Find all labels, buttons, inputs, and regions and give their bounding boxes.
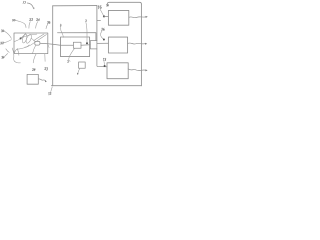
- label 12 below main box: [49, 92, 52, 95]
- sketch steering dot: [20, 37, 22, 39]
- vehicle sketch box: [14, 33, 48, 54]
- label 20: [12, 19, 15, 21]
- lead 16 with dot: [100, 9, 103, 15]
- stub wire on main box right edge: [97, 19, 101, 21]
- squiggle arrow box1: [129, 16, 146, 19]
- sketch body curves lower-left: [6, 48, 20, 63]
- squiggle arrow box3: [128, 69, 145, 71]
- lead 34: [5, 54, 8, 57]
- lower small box in main box: [79, 62, 86, 68]
- label below sketch right: [45, 68, 48, 71]
- lead 30: [4, 31, 11, 38]
- lead 26: [46, 24, 48, 29]
- attached small box on right edge: [90, 41, 97, 49]
- squiggle arrow box2: [128, 42, 145, 45]
- label 42: [59, 24, 62, 26]
- lead 32: [4, 40, 12, 43]
- small box inside inner unit: [73, 42, 81, 48]
- upper wire inside main box: [58, 33, 96, 41]
- label below sketch left: [32, 68, 35, 71]
- bottom-left small box: [27, 74, 38, 84]
- lead 24: [36, 22, 38, 29]
- box3: [107, 63, 128, 79]
- lead from lower box: [78, 68, 80, 73]
- main box right edge upper: [96, 6, 98, 41]
- lead 22: [29, 22, 30, 29]
- arrowhead lower box lead: [77, 73, 79, 75]
- lead 44 with dot: [86, 22, 87, 42]
- arrow from label 10: [27, 3, 34, 9]
- lead 20: [16, 20, 26, 27]
- lead below sketch right: [44, 54, 46, 62]
- wire through inner unit: [61, 44, 74, 46]
- wire main box to box3: [97, 49, 107, 67]
- label 36: [101, 28, 104, 30]
- lead 12: [51, 87, 52, 92]
- label 24: [36, 19, 39, 21]
- label 34: [2, 56, 5, 58]
- sketch interior harness curves: [15, 33, 47, 53]
- wire main box to box2: [97, 42, 109, 44]
- lead 42: [61, 25, 64, 38]
- squiggle from bottom-left box: [38, 79, 45, 81]
- lead below sketch left: [33, 54, 36, 63]
- label 48: [67, 61, 68, 63]
- label 14: [107, 4, 109, 6]
- main box bottom edge: [52, 85, 142, 87]
- main box top edge: [53, 5, 97, 7]
- wire pill to inner unit: [40, 43, 61, 45]
- main box left edge: [52, 6, 54, 86]
- label 22: [30, 18, 33, 20]
- outer right box top edge: [107, 2, 141, 5]
- label 32: [0, 42, 3, 44]
- box2: [108, 37, 127, 53]
- small sag mark between sketch and main box: [48, 45, 51, 48]
- label 16: [98, 6, 101, 9]
- label 10: [23, 1, 26, 4]
- label 30: [1, 30, 4, 32]
- lead 48 curve: [69, 49, 75, 62]
- junction dot box3 wire: [104, 65, 106, 67]
- wire dot to box1: [104, 16, 108, 18]
- inner unit box: [61, 37, 90, 57]
- lead 18: [103, 61, 106, 64]
- label 44: [85, 20, 86, 22]
- sketch pill component: [35, 41, 40, 45]
- label 26: [47, 21, 50, 23]
- label 18: [103, 58, 106, 61]
- outer right box right edge: [140, 4, 142, 86]
- lead 36 with dot: [101, 31, 104, 39]
- box1: [108, 10, 128, 25]
